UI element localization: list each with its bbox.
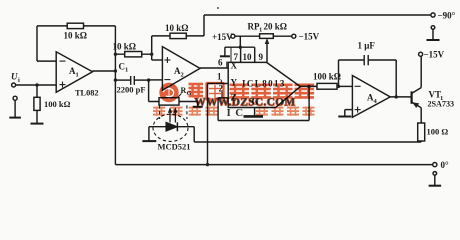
svg-text:2: 2	[181, 72, 184, 79]
svg-text:2200 pF: 2200 pF	[117, 85, 146, 95]
resistor 100 Ohm	[418, 123, 425, 141]
resistor 10 kOhm to A2 plus	[115, 52, 151, 57]
wire pot to -15V	[273, 35, 292, 37]
wire Y pin to 0deg rail	[208, 84, 229, 165]
wire A1 inverting input to feedback	[37, 26, 115, 61]
wire vertical output node to 0deg rail	[114, 26, 116, 165]
wire A4 plus to ground	[345, 110, 353, 116]
capacitor 1uF feedback	[339, 55, 397, 97]
wire top rail to -90 terminal	[204, 15, 431, 36]
svg-text:1: 1	[76, 72, 79, 79]
watermark solid chars	[230, 84, 315, 99]
optocoupler MCD521 dashed enclosure	[153, 105, 188, 141]
wire to AGC rail	[420, 141, 422, 142]
node junction 1uF left	[337, 85, 340, 88]
svg-text:100 Ω: 100 Ω	[427, 127, 449, 137]
pin G ground	[244, 108, 264, 117]
svg-text:20 kΩ: 20 kΩ	[264, 22, 287, 32]
svg-text:i: i	[18, 77, 20, 84]
svg-text:100 kΩ: 100 kΩ	[44, 99, 71, 109]
node junction pin7 to +15V	[239, 46, 242, 49]
reference terminal	[13, 96, 17, 117]
svg-text:10 kΩ: 10 kΩ	[113, 42, 136, 52]
pin 9 wire with wiper arrow	[265, 38, 270, 62]
ground below -90	[427, 26, 440, 40]
svg-text:9: 9	[259, 52, 264, 62]
wire LED cathode down to 142 rail	[193, 127, 195, 142]
resistor 100 kOhm to A4	[317, 83, 337, 89]
terminal -90deg	[431, 13, 435, 17]
watermark slogan chars	[153, 107, 315, 116]
wire to A4 minus	[337, 85, 352, 87]
svg-text:2SA733: 2SA733	[428, 100, 455, 109]
wire multiplier output	[300, 85, 317, 87]
capacitor C1 2200pF	[115, 76, 148, 85]
svg-text:7: 7	[234, 52, 239, 62]
svg-text:−15V: −15V	[424, 50, 445, 60]
ground LED anode	[142, 127, 156, 141]
input terminal Ui	[12, 83, 57, 87]
transistor VT1 2SA733	[412, 88, 422, 108]
pin boxes 7 10 on top	[225, 47, 255, 62]
node junction Z feedback	[307, 85, 310, 88]
svg-text:10 kΩ: 10 kΩ	[165, 23, 188, 33]
wire	[16, 84, 57, 86]
svg-text:X: X	[231, 61, 238, 71]
svg-text:1 μF: 1 μF	[358, 41, 376, 51]
wire 0deg output rail	[115, 164, 432, 166]
potentiometer RP1 20k	[260, 34, 274, 39]
svg-text:U: U	[11, 72, 18, 82]
svg-text:IC: IC	[227, 107, 248, 119]
wire A1 output	[93, 70, 116, 72]
node junction	[150, 53, 153, 56]
wire A4 output to base	[390, 96, 411, 98]
op-amp A4	[352, 76, 390, 118]
pin1 tick	[220, 80, 222, 84]
node junction Y tap	[206, 163, 209, 166]
wire A2 plus input	[152, 36, 163, 60]
ground	[31, 123, 44, 125]
ground RG	[193, 102, 203, 107]
speck	[217, 7, 219, 9]
svg-text:+15V: +15V	[212, 32, 233, 42]
svg-text:10 kΩ: 10 kΩ	[64, 31, 87, 41]
resistor 100 kOhm input	[34, 85, 40, 123]
wire AGC rail	[194, 141, 421, 143]
watermark outlined chars	[189, 83, 224, 100]
svg-text:TL082: TL082	[75, 89, 99, 98]
terminal +15V	[231, 34, 235, 38]
svg-text:MCD521: MCD521	[158, 142, 191, 152]
op-amp A1	[56, 52, 92, 92]
terminal 0deg	[433, 163, 437, 167]
ground below 0deg	[429, 172, 442, 186]
LED of MCD521	[149, 122, 194, 131]
wire collector to -15V	[420, 56, 422, 87]
wire A2 output to pin6 X	[200, 67, 228, 69]
svg-text:−15V: −15V	[299, 32, 320, 42]
svg-text:100 kΩ: 100 kΩ	[313, 72, 341, 82]
node junction at input	[35, 83, 38, 86]
svg-text:−90°: −90°	[438, 11, 456, 21]
op-amp A2	[162, 47, 200, 91]
node junction C1/A2 minus	[147, 78, 150, 81]
node junctions on output bus	[114, 53, 117, 82]
resistor 10 kOhm feedback A1	[67, 23, 83, 28]
pin2 tick	[221, 92, 223, 98]
ground on pin7 box	[220, 47, 230, 56]
wire stub to +15V line	[239, 36, 241, 47]
svg-text:10: 10	[243, 52, 253, 62]
multiplier ICL8013	[228, 62, 300, 107]
wire Z pin feedback loop	[218, 86, 309, 120]
watermark logo blob	[159, 83, 178, 102]
light arrows	[168, 107, 178, 122]
terminal -15V	[292, 34, 296, 38]
ground	[9, 117, 21, 119]
pin 6 tick	[226, 62, 228, 69]
terminal -15V collector	[419, 52, 423, 56]
svg-text:1: 1	[217, 72, 222, 82]
svg-text:6: 6	[218, 58, 223, 68]
wire down to RG	[148, 80, 150, 101]
wire +15V to pot	[235, 35, 260, 37]
resistor 10 kOhm to top rail	[152, 33, 204, 38]
ground	[338, 116, 351, 118]
wire A2 minus input	[149, 79, 163, 81]
svg-text:1: 1	[125, 67, 128, 74]
svg-text:0°: 0°	[441, 160, 450, 170]
RG pointer line	[177, 94, 182, 99]
watermark	[153, 83, 315, 119]
wire emitter down	[420, 108, 422, 123]
photoresistor RG	[149, 98, 198, 105]
node junction 1uF right	[395, 95, 398, 98]
svg-text:1: 1	[259, 27, 262, 34]
